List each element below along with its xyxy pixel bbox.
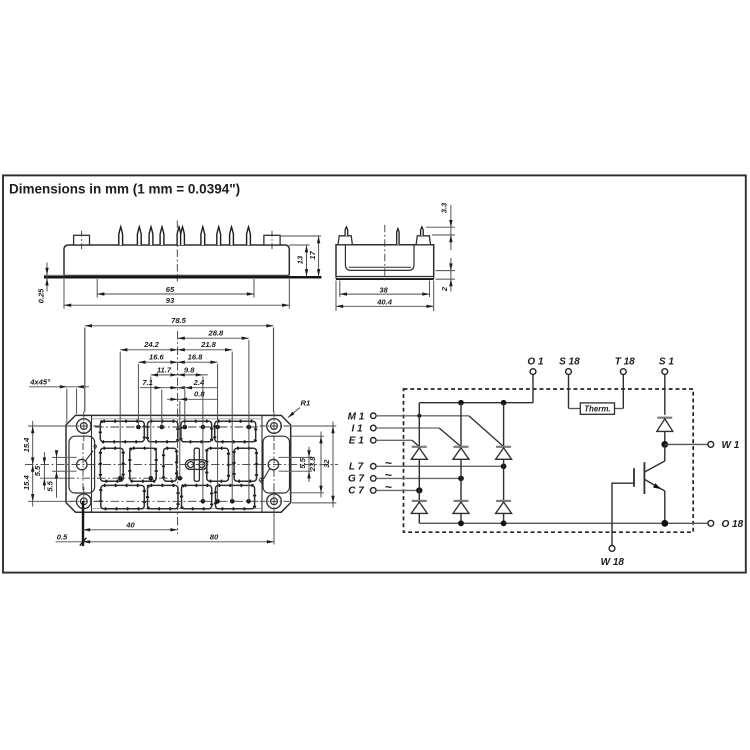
wire G7 [376,477,461,479]
svg-text:G 7: G 7 [348,474,365,485]
diode D6 (lower leg3) [496,501,512,514]
svg-text:3.3: 3.3 [439,202,448,213]
node W1 junction [661,441,668,448]
svg-text:65: 65 [166,285,175,294]
dimension 21.8 [178,340,233,351]
centerline vertical (top view) [177,331,179,534]
junction emitter / bus [661,520,668,527]
svg-text:I 1: I 1 [351,424,363,435]
terminal T18 [615,357,635,409]
svg-text:15.4: 15.4 [22,437,31,453]
terminal E1 [349,436,376,447]
extension lines from ladder [85,328,274,502]
slot lines right [279,456,291,458]
wire: negative bottom bus [419,522,708,524]
svg-text:9.8: 9.8 [184,365,195,374]
junction bus / leg3 [501,520,507,526]
dimension 2.4 [170,378,217,389]
dimension 17 (side view) [308,236,320,276]
inner cavity U (end view) [345,245,414,271]
dimension 28.8 [178,329,249,340]
mounting hole top-right [260,412,290,442]
mounting hole bottom-left [70,487,100,517]
leader R1 [288,399,310,418]
wire leg2 upper [460,403,462,447]
wire leg3 upper [503,403,505,447]
svg-text:40: 40 [125,520,135,529]
svg-text:2.4: 2.4 [193,378,205,387]
diode D7 (S1 branch) [657,418,673,445]
wire to W1 [665,443,708,445]
terminal O1 [527,357,544,403]
svg-text:~: ~ [385,480,392,494]
extension lines (end view right) [426,226,455,228]
junction bus / leg2 [458,520,464,526]
svg-text:11.7: 11.7 [157,365,172,374]
equivalent-circuit dashed enclosure [404,389,694,532]
svg-text:5.5: 5.5 [45,480,54,491]
svg-text:78.5: 78.5 [171,316,187,325]
terminal M1 [348,411,376,422]
terminal C7 [348,480,392,497]
svg-text:2: 2 [440,286,449,292]
dimension 40 (top view) [83,520,178,531]
wire M1 [376,415,469,417]
terminal pockets top row [100,421,255,442]
svg-text:W 1: W 1 [722,440,740,451]
terminal O18 [708,519,744,530]
pins (side view) [119,227,251,245]
svg-text:15.4: 15.4 [22,475,31,491]
baseplate (side view) [44,276,322,279]
junction L7 / leg3 [501,464,507,470]
svg-text:Therm.: Therm. [584,405,610,414]
svg-text:23.8: 23.8 [308,456,317,473]
junction top bus / leg2 [458,400,464,406]
module body (end view) [336,245,434,277]
svg-text:W 18: W 18 [601,557,625,568]
svg-text:7.1: 7.1 [142,378,153,387]
dimension 2 (end view) [440,258,453,292]
terminal S1 [659,357,674,415]
boss right (end view) [416,236,430,245]
svg-text:4x45°: 4x45° [29,378,51,387]
svg-text:Dimensions in mm (1 mm = 0.039: Dimensions in mm (1 mm = 0.0394") [9,182,240,197]
dimension 24.2 [120,340,177,351]
terminal I1 [351,424,376,435]
side pocket left [69,436,95,493]
svg-text:17: 17 [308,250,317,259]
wire leg2 lower [460,513,462,523]
diode D2 (upper leg2) [453,447,469,460]
dimension 7.1 [140,378,185,389]
slot lines left [66,456,77,458]
dimension 11.7 [151,365,178,376]
dimension 0.5 (top view) [56,533,87,546]
wire C7 [376,489,419,491]
svg-text:0.5: 0.5 [57,533,68,542]
left dim 5.5 (lower) [45,450,66,498]
wire leg1 lower [418,513,420,523]
dimension 40.4 (end view) [336,281,434,312]
svg-text:16.8: 16.8 [188,353,204,362]
diode D1 (upper leg1) [411,447,427,460]
diode D4 (lower leg1) [411,501,427,514]
pocket edge ticks bottom row [101,485,255,508]
extension lines right (side view) [280,235,321,237]
side circle right [268,459,278,469]
TOPVIEW [22,316,338,546]
dimension 16.8 [178,353,218,364]
SCHEMATIC [348,357,744,569]
wire leg3 middle [503,459,505,500]
pin dots bottom row [201,499,251,504]
mounting boss left (side view) [74,235,90,245]
diode D3 (upper leg3) [496,447,512,460]
svg-text:80: 80 [210,532,219,541]
pocket centerline right [273,443,275,497]
centerline rows (top view) [95,426,258,428]
boss left (end view) [338,236,352,245]
dimension 38 (end view) [340,281,430,298]
pin dots middle row [118,476,182,481]
module outline (top view, 4x45 chamfers) [66,415,291,512]
centerline horizontal (top view) [25,464,338,466]
dimension 0.25 (side view) [37,263,64,304]
wire I1 [376,427,439,429]
junction G7 / leg2 [458,476,464,482]
dimension 0.8 [167,390,218,401]
transistor Q1 (IGBT) [634,444,665,523]
centerline (end view) [384,225,386,282]
terminal W1 [708,440,740,451]
svg-text:28.8: 28.8 [208,329,225,338]
dimension 78.5 [85,316,274,327]
svg-text:21.8: 21.8 [200,340,217,349]
mounting hole top-left [70,412,100,442]
svg-text:16.6: 16.6 [149,353,165,362]
svg-text:M 1: M 1 [348,411,365,422]
svg-text:24.2: 24.2 [143,340,160,349]
centerline (side view) [176,221,178,282]
dimension 65 (side view) [97,279,254,298]
pocket centerline left [82,443,84,497]
wire leg1 middle [418,459,420,500]
lid step lines (top view) [91,415,93,512]
svg-text:93: 93 [166,296,175,305]
svg-text:5.5: 5.5 [298,457,307,468]
left dims: 15.4 / 15.4 [22,421,77,507]
svg-text:0.25: 0.25 [37,288,46,304]
thermistor Therm. [569,403,624,414]
wire gate to W18 [612,483,634,545]
wire: positive top bus [419,402,533,404]
svg-text:0.8: 0.8 [194,390,205,399]
svg-text:T 18: T 18 [615,357,635,368]
svg-text:R1: R1 [301,399,311,408]
dimension 4x45 [29,378,89,423]
dimension 93 (side view) [64,279,289,309]
svg-text:40.4: 40.4 [376,298,393,307]
svg-text:O 18: O 18 [722,519,744,530]
center key feature (top view) [185,448,207,481]
baseplate (end view) [336,276,434,278]
junction M1 / leg1 [417,414,421,418]
pin dots top row [136,425,251,430]
wire E1 [376,439,412,441]
junction top bus / leg3 [501,400,507,406]
wire leg1 upper [418,403,420,447]
side pocket right [263,436,290,493]
SIDEVIEW [37,221,322,309]
pocket edge ticks middle row [100,448,256,481]
svg-text:38: 38 [379,285,388,294]
mounting hole bottom-right [260,487,290,517]
wire leg3 lower [503,513,505,523]
svg-text:O 1: O 1 [527,357,544,368]
svg-text:13: 13 [295,255,304,264]
svg-text:S 1: S 1 [659,357,674,368]
wire L7 [376,465,504,467]
right dim 23.8 [290,432,325,498]
right dim 32 [292,422,336,508]
dimension 13 (side view) [295,245,308,276]
dimension 80 (top view) [83,532,274,543]
terminal pockets middle row [100,448,256,481]
pin center (end view) [397,229,399,245]
pin left (end view) [345,227,348,236]
terminal pockets bottom row [101,485,255,508]
wire leg2 middle [460,459,462,500]
right dim 5.5 (slot) [291,447,312,482]
mounting boss right (side view) [264,235,280,245]
pocket edge ticks top row [100,421,255,442]
module body (side view) [64,245,289,275]
left dim 5.5 (upper) [33,452,185,490]
terminal W18 [601,546,625,569]
svg-text:32: 32 [322,459,331,468]
dimension 16.6 [138,353,177,364]
terminal S18 [559,357,580,409]
bottom hole extension heavy [82,501,84,546]
junction C7 / leg1 [416,487,422,493]
terminal L7 [349,456,392,473]
side circle left [77,459,87,469]
svg-text:E 1: E 1 [349,436,364,447]
svg-text:S 18: S 18 [559,357,580,368]
ENDVIEW [336,202,455,311]
pin right (end view) [421,227,424,236]
dimension 9.8 [178,365,208,376]
terminal G7 [348,468,392,485]
svg-text:L 7: L 7 [349,461,364,472]
dimension 3.3 (end view) [439,202,452,250]
svg-text:C 7: C 7 [348,486,364,497]
svg-text:5.5: 5.5 [33,465,42,476]
drawing frame border [3,175,746,572]
diode D5 (lower leg2) [453,501,469,514]
